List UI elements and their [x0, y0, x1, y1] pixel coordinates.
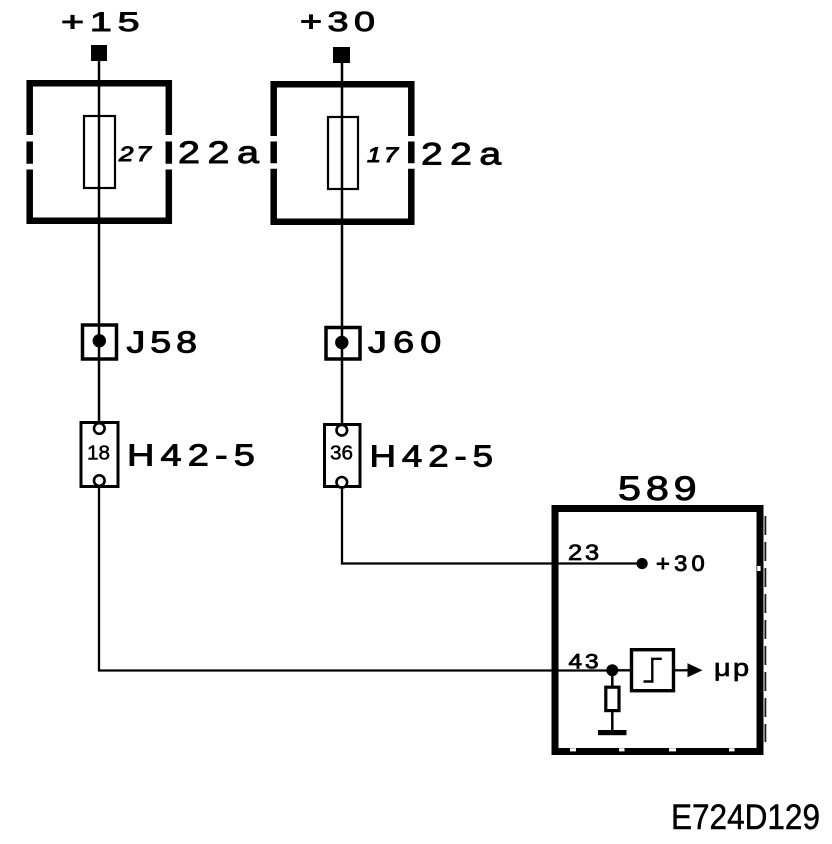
svg-text:H42-5: H42-5: [127, 438, 261, 473]
svg-text:J58: J58: [127, 326, 203, 360]
fuse 17 value label: [367, 144, 401, 167]
label H42-5 right: [370, 439, 500, 474]
node dot 43 junction: [606, 664, 618, 676]
svg-text:+15: +15: [61, 7, 146, 37]
node +15 label: [61, 7, 146, 37]
svg-text:27: 27: [118, 143, 154, 166]
svg-text:J60: J60: [368, 326, 448, 360]
label H42-5 left: [127, 438, 261, 473]
svg-text:+30: +30: [656, 551, 709, 576]
wire pin36 to node 23: [342, 486, 642, 564]
svg-text:H42-5: H42-5: [370, 439, 500, 474]
label microprocessor: [714, 655, 752, 682]
node dot +30 internal: [637, 558, 648, 569]
resistor R1: [606, 687, 619, 710]
svg-text:E724D129: E724D129: [671, 797, 820, 837]
wire schmitt to arrow: [675, 669, 688, 671]
fuse 27: [84, 116, 115, 188]
scan nicks on control unit border: [570, 566, 761, 751]
fuse holder label 22a left: [178, 134, 267, 170]
arrowhead to microprocessor: [688, 663, 703, 677]
fuse holder label 22a right: [421, 136, 509, 172]
fuse 17: [328, 117, 358, 189]
svg-text:43: 43: [569, 651, 602, 674]
terminal square +30: [333, 47, 350, 63]
wire resistor to ground: [611, 712, 614, 731]
ground: [598, 730, 627, 735]
svg-text:589: 589: [618, 470, 702, 508]
svg-text:23: 23: [568, 540, 602, 565]
svg-text:18: 18: [87, 443, 110, 465]
junction J58: [83, 325, 117, 359]
wire +30 vertical: [341, 63, 344, 426]
fuse 27 value label: [118, 143, 154, 166]
figure label E724D129: [671, 797, 820, 837]
pin 23 label: [568, 540, 602, 565]
schmitt trigger U1 box: [632, 650, 674, 691]
wire dot to resistor: [611, 670, 614, 686]
label J60: [368, 326, 448, 360]
node +30 label: [300, 6, 381, 37]
connector H42-5 pin 18: [81, 423, 118, 487]
fuse box 22a right (dashed border): [271, 81, 415, 225]
junction J60: [326, 328, 360, 360]
label J58: [127, 326, 203, 360]
connector H42-5 pin 36: [325, 425, 361, 488]
wire pin18 to node 43: [99, 486, 612, 671]
internal +30 label: [656, 551, 709, 576]
svg-text:μp: μp: [714, 655, 752, 682]
svg-text:+30: +30: [300, 6, 381, 37]
pin 43 label: [569, 651, 602, 674]
fuse box 22a left (dashed border): [27, 80, 173, 224]
svg-text:22a: 22a: [421, 136, 509, 172]
label 589: [618, 470, 702, 508]
svg-text:22a: 22a: [178, 134, 267, 170]
svg-text:36: 36: [330, 443, 353, 465]
wire +15 vertical: [98, 60, 101, 424]
terminal square +15: [91, 45, 107, 61]
control unit 589 box: [555, 509, 760, 752]
scan shadow line right of control unit: [764, 516, 766, 742]
wire dot to schmitt trigger: [612, 669, 631, 671]
svg-text:17: 17: [367, 144, 401, 167]
